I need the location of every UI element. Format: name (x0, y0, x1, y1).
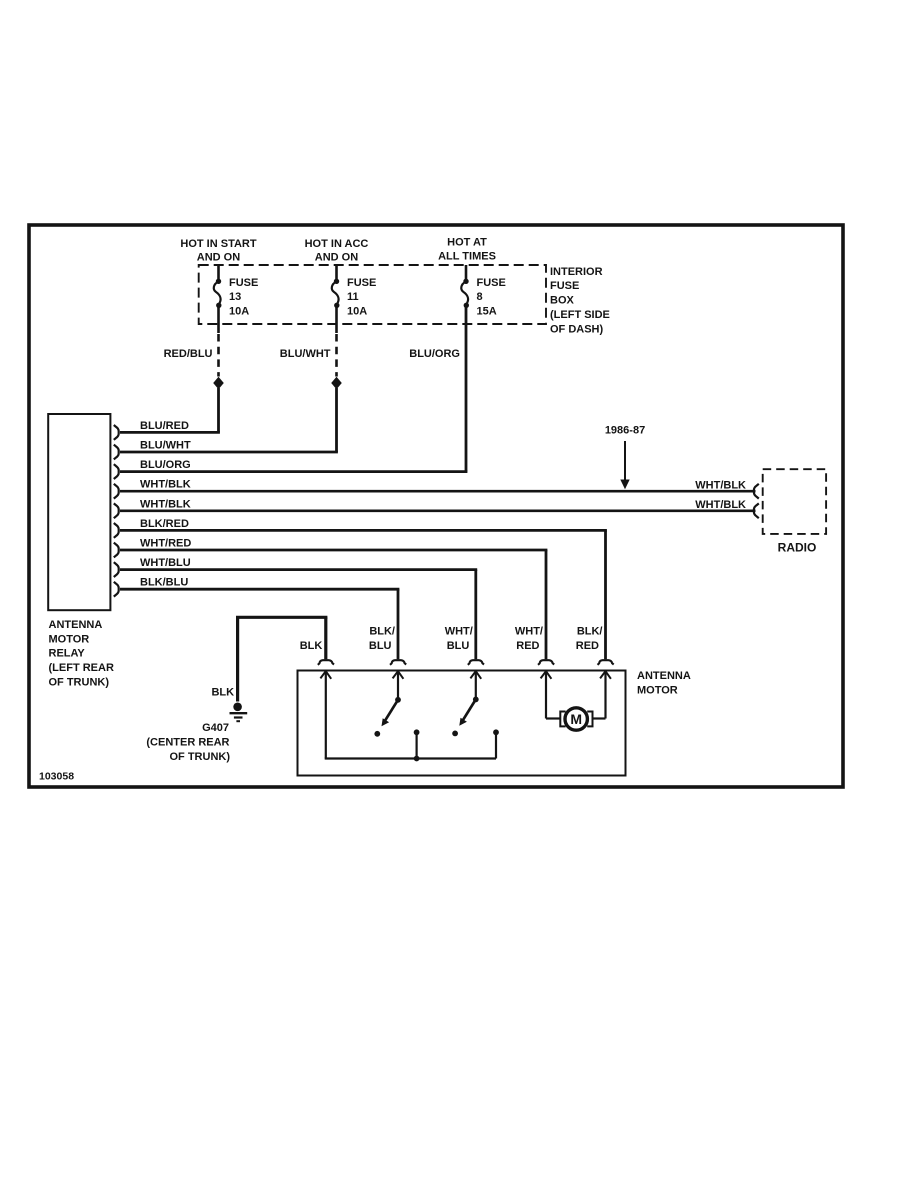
svg-text:WHT/: WHT/ (445, 626, 473, 638)
svg-text:FUSE: FUSE (477, 277, 506, 289)
svg-text:OF TRUNK): OF TRUNK) (170, 751, 231, 763)
svg-text:HOT IN ACC: HOT IN ACC (305, 238, 369, 250)
svg-text:AND ON: AND ON (197, 252, 240, 264)
svg-text:INTERIOR: INTERIOR (550, 266, 603, 278)
svg-text:OF TRUNK): OF TRUNK) (49, 676, 110, 688)
svg-text:BLU: BLU (369, 640, 392, 652)
svg-text:WHT/BLK: WHT/BLK (695, 499, 746, 511)
svg-text:(CENTER REAR: (CENTER REAR (146, 736, 229, 748)
svg-text:BLU/WHT: BLU/WHT (140, 440, 191, 452)
svg-text:RED: RED (516, 640, 539, 652)
svg-text:11: 11 (347, 291, 359, 303)
svg-text:ANTENNA: ANTENNA (637, 670, 691, 682)
svg-text:ANTENNA: ANTENNA (49, 619, 103, 631)
svg-text:BLU/RED: BLU/RED (140, 420, 189, 432)
svg-text:RELAY: RELAY (49, 648, 86, 660)
svg-text:BLU/ORG: BLU/ORG (409, 348, 460, 360)
svg-text:OF DASH): OF DASH) (550, 323, 604, 335)
svg-text:WHT/BLK: WHT/BLK (140, 498, 191, 510)
svg-text:WHT/BLK: WHT/BLK (140, 479, 191, 491)
svg-text:FUSE: FUSE (550, 280, 579, 292)
svg-text:HOT IN START: HOT IN START (180, 238, 256, 250)
svg-text:103058: 103058 (39, 771, 74, 783)
svg-text:BLK: BLK (300, 640, 323, 652)
svg-text:MOTOR: MOTOR (637, 685, 678, 697)
svg-text:1986-87: 1986-87 (605, 425, 645, 437)
svg-text:FUSE: FUSE (347, 277, 376, 289)
svg-text:8: 8 (477, 291, 483, 303)
svg-text:BLK/BLU: BLK/BLU (140, 577, 188, 589)
svg-text:10A: 10A (347, 305, 367, 317)
svg-text:BLU/WHT: BLU/WHT (280, 348, 331, 360)
svg-text:BLK/: BLK/ (577, 626, 603, 638)
svg-text:G407: G407 (202, 722, 229, 734)
svg-text:WHT/RED: WHT/RED (140, 538, 191, 550)
svg-text:RED: RED (576, 640, 599, 652)
svg-text:FUSE: FUSE (229, 277, 258, 289)
svg-text:M: M (570, 711, 582, 727)
svg-text:BLK: BLK (211, 687, 234, 699)
svg-text:WHT/: WHT/ (515, 626, 543, 638)
svg-text:(LEFT SIDE: (LEFT SIDE (550, 309, 610, 321)
svg-text:WHT/BLK: WHT/BLK (695, 480, 746, 492)
svg-text:15A: 15A (477, 305, 497, 317)
svg-text:ALL TIMES: ALL TIMES (438, 250, 496, 262)
svg-text:WHT/BLU: WHT/BLU (140, 557, 191, 569)
svg-text:13: 13 (229, 291, 241, 303)
svg-text:MOTOR: MOTOR (49, 633, 90, 645)
svg-text:HOT AT: HOT AT (447, 237, 487, 249)
svg-text:AND ON: AND ON (315, 252, 358, 264)
svg-text:BOX: BOX (550, 295, 575, 307)
svg-text:BLU/ORG: BLU/ORG (140, 459, 191, 471)
svg-text:BLK/RED: BLK/RED (140, 518, 189, 530)
svg-text:BLU: BLU (447, 640, 470, 652)
svg-text:BLK/: BLK/ (369, 626, 395, 638)
svg-text:RADIO: RADIO (778, 541, 817, 555)
svg-text:(LEFT REAR: (LEFT REAR (49, 662, 114, 674)
svg-text:RED/BLU: RED/BLU (164, 348, 213, 360)
svg-text:10A: 10A (229, 305, 249, 317)
